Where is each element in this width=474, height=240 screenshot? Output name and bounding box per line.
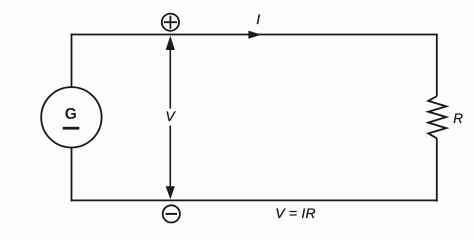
wire right conductor lower segment (436, 138, 438, 201)
wire left conductor upper segment (71, 34, 73, 88)
wire bottom conductor (71, 199, 438, 201)
plus terminal circle (162, 14, 179, 31)
plus terminal cross (164, 16, 177, 29)
svg-text:G: G (65, 106, 77, 123)
svg-text:I: I (256, 11, 260, 27)
voltage arrowhead up (166, 36, 175, 50)
svg-text:V = IR: V = IR (275, 205, 316, 221)
wire left conductor lower segment (71, 147, 73, 201)
resistor R zigzag (428, 96, 446, 138)
svg-text:V: V (165, 108, 176, 124)
current arrowhead on top wire (248, 31, 261, 39)
wire right conductor upper segment (436, 34, 438, 97)
voltage arrow shaft lower (169, 125, 171, 188)
minus terminal circle (163, 205, 180, 222)
svg-text:R: R (453, 111, 463, 126)
generator U1 circle (41, 87, 101, 147)
minus terminal bar (166, 213, 177, 215)
voltage arrow shaft upper (169, 47, 171, 109)
wire top conductor (71, 34, 438, 36)
generator underline bar (63, 127, 80, 130)
voltage arrowhead down (166, 186, 175, 199)
